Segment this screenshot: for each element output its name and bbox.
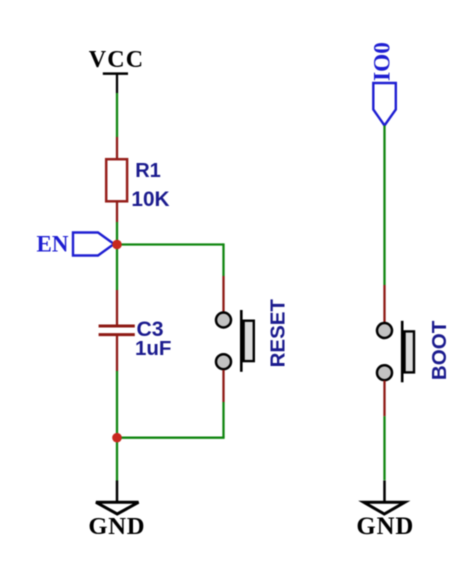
svg-text:GND: GND xyxy=(356,513,414,540)
svg-text:IO0: IO0 xyxy=(370,42,396,81)
svg-text:RESET: RESET xyxy=(267,299,290,368)
svg-text:R1: R1 xyxy=(135,160,161,182)
svg-text:1uF: 1uF xyxy=(135,337,171,360)
svg-text:VCC: VCC xyxy=(89,47,145,73)
svg-text:10K: 10K xyxy=(131,188,169,211)
svg-text:GND: GND xyxy=(88,513,145,540)
svg-text:BOOT: BOOT xyxy=(428,320,451,380)
svg-text:EN: EN xyxy=(37,232,69,257)
